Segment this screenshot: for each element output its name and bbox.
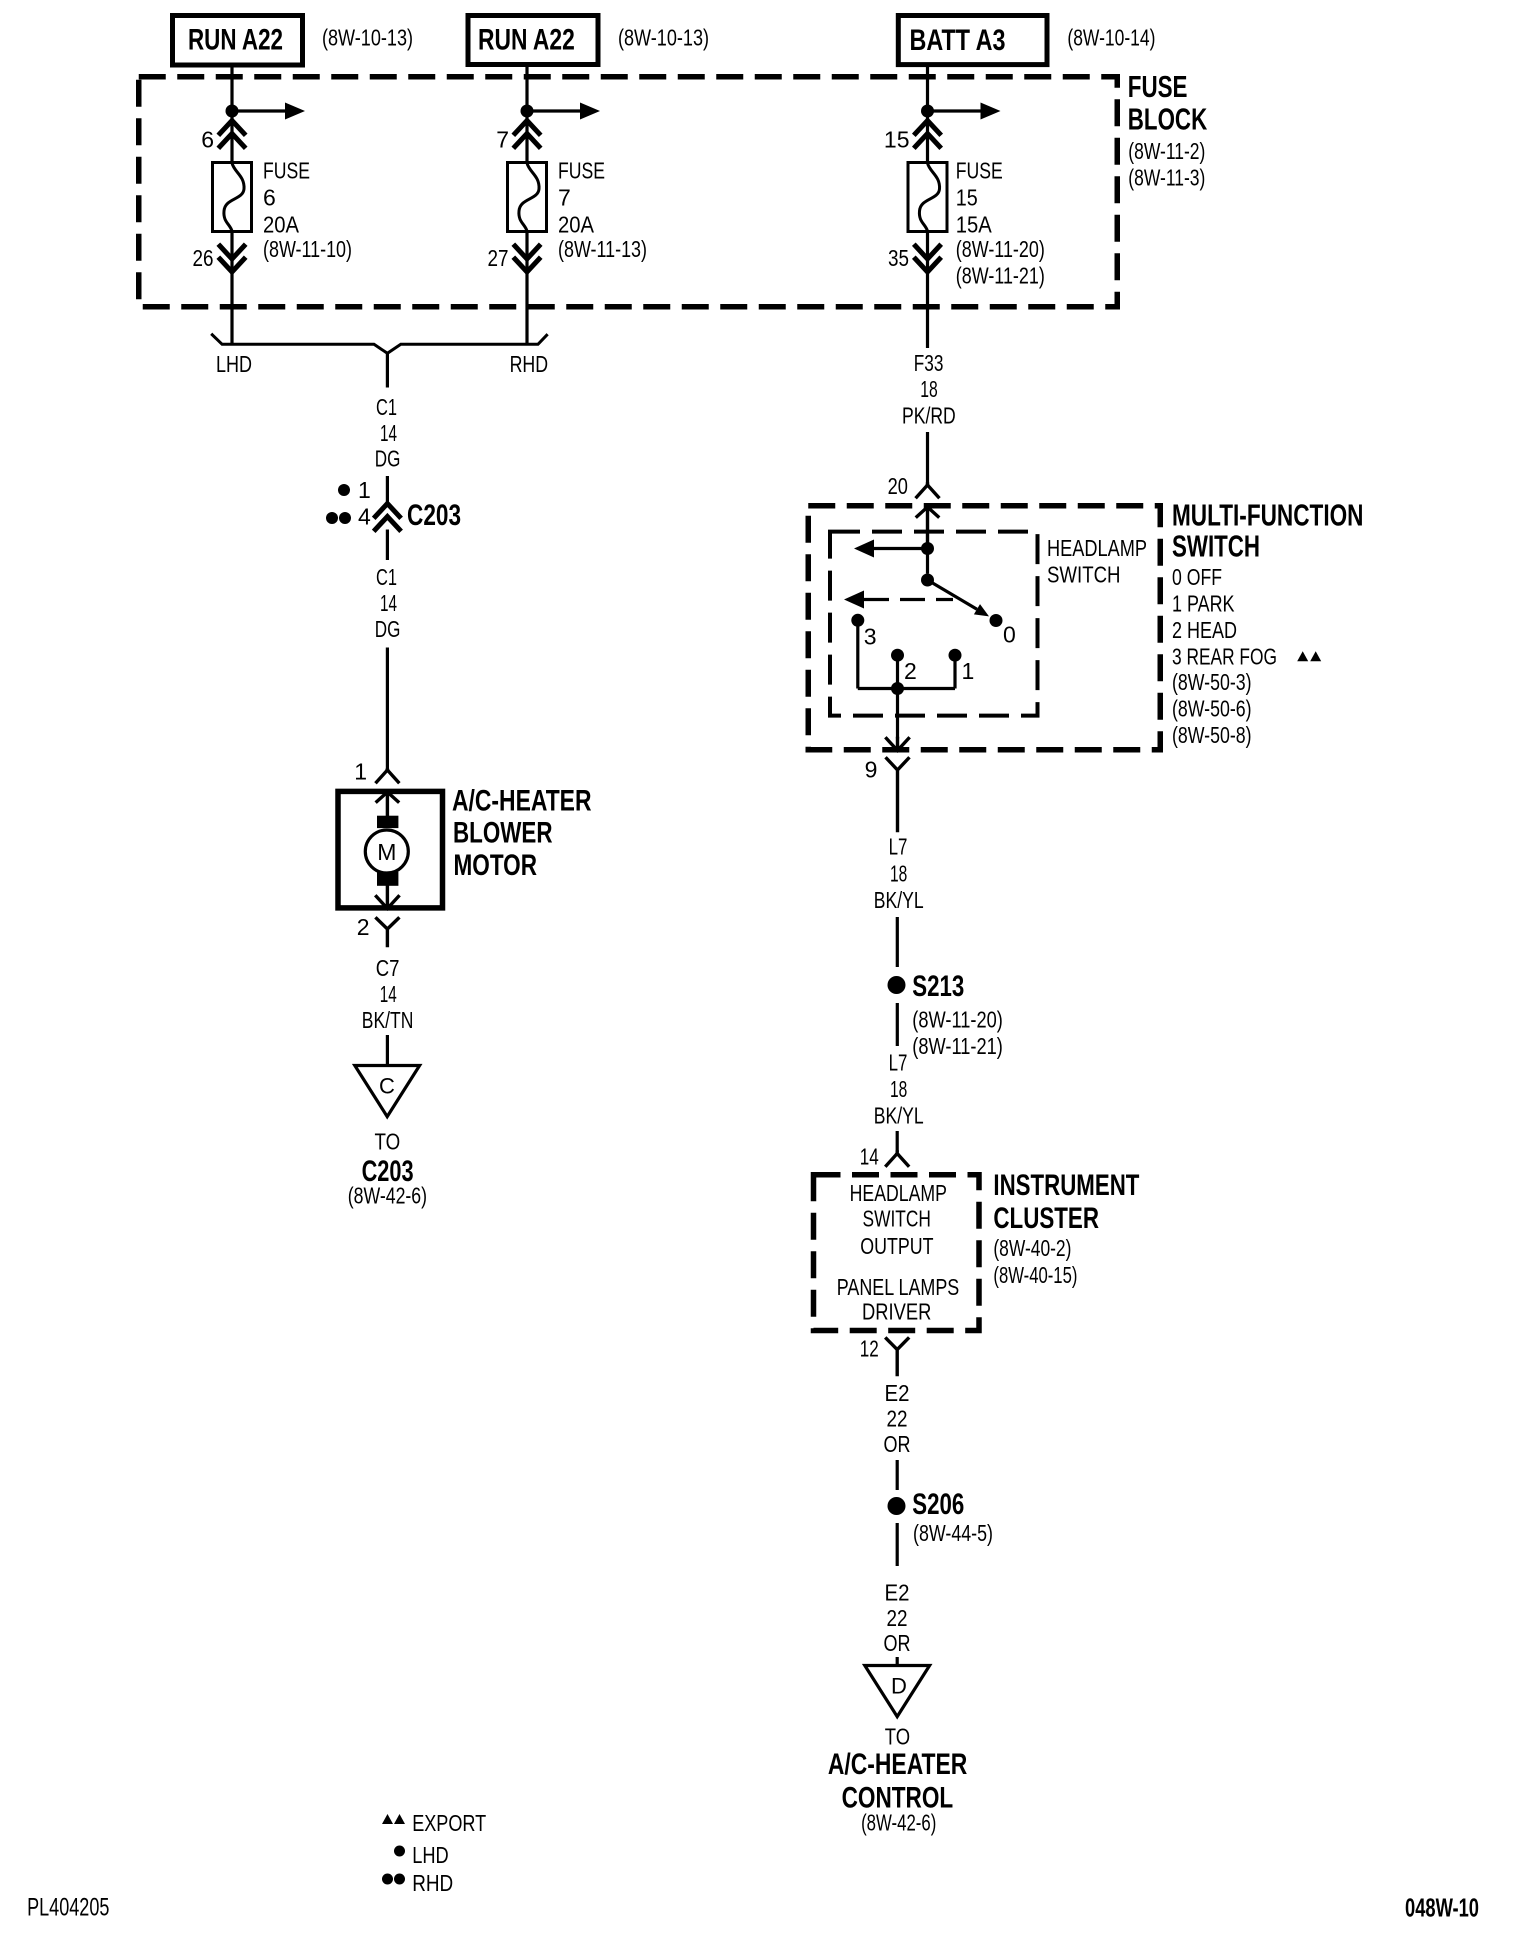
connector chevrons pin 27 <box>515 246 539 272</box>
legend RHD dots <box>382 1874 393 1885</box>
svg-text:3 REAR FOG: 3 REAR FOG <box>1172 643 1277 669</box>
LHD dot marker with pin 1 <box>338 477 371 503</box>
brace joining LHD and RHD wires <box>212 335 546 354</box>
svg-text:(8W-44-5): (8W-44-5) <box>913 1520 993 1546</box>
connector chevrons pin 7 <box>515 121 539 147</box>
svg-text:L7: L7 <box>889 833 908 859</box>
svg-text:(8W-11-13): (8W-11-13) <box>558 236 647 262</box>
svg-text:MULTI-FUNCTION: MULTI-FUNCTION <box>1172 498 1364 533</box>
switch contact 1 wire <box>953 655 956 688</box>
legend LHD dot <box>394 1846 405 1857</box>
svg-text:FUSE: FUSE <box>558 157 605 183</box>
svg-text:14: 14 <box>380 420 397 446</box>
svg-text:PL404205: PL404205 <box>27 1894 109 1922</box>
svg-text:27: 27 <box>488 245 509 271</box>
svg-text:1: 1 <box>962 658 975 684</box>
svg-text:RHD: RHD <box>510 351 548 377</box>
splice S213 references <box>912 1007 1003 1060</box>
connector chevrons pin 15 <box>916 121 940 147</box>
svg-text:(8W-50-6): (8W-50-6) <box>1172 695 1252 721</box>
switch output junction dot <box>891 682 904 695</box>
svg-text:20A: 20A <box>558 211 595 237</box>
svg-text:D: D <box>891 1674 907 1699</box>
cluster references <box>993 1235 1077 1288</box>
svg-text:12: 12 <box>860 1336 879 1362</box>
svg-text:(8W-11-21): (8W-11-21) <box>956 263 1045 289</box>
svg-text:A/C-HEATER: A/C-HEATER <box>452 785 592 818</box>
svg-text:(8W-11-21): (8W-11-21) <box>912 1033 1003 1059</box>
wire into instrument cluster <box>896 1131 899 1152</box>
wire junction to wiper pivot <box>926 549 929 574</box>
svg-text:(8W-10-14): (8W-10-14) <box>1067 25 1155 51</box>
fuse 7 element <box>519 163 539 231</box>
motor pin 2 arrow inside box <box>376 886 398 909</box>
A/C-heater blower motor box <box>338 791 443 908</box>
headlamp switch inner dashed box <box>830 532 1038 716</box>
wire to blower motor <box>386 648 389 771</box>
fuse 7 labels <box>558 157 647 262</box>
multi-function switch title <box>1172 498 1364 564</box>
wire below splice S213 <box>896 1003 899 1046</box>
svg-text:0: 0 <box>1003 622 1016 648</box>
cluster internal label panel lamps driver <box>837 1274 960 1325</box>
svg-text:E2: E2 <box>885 1380 910 1406</box>
svg-text:15: 15 <box>884 127 910 153</box>
headlamp switch inner label <box>1047 535 1147 588</box>
svg-text:(8W-11-10): (8W-11-10) <box>263 236 352 262</box>
switch contact 0 dot <box>990 614 1003 627</box>
svg-text:DRIVER: DRIVER <box>862 1299 931 1325</box>
switch contact 2 dot <box>891 649 904 662</box>
svg-text:6: 6 <box>263 184 276 210</box>
motor brush contact (top) <box>377 816 398 828</box>
wire A feed from source box <box>230 67 233 162</box>
svg-text:C1: C1 <box>376 394 397 420</box>
fuse 6 element <box>224 163 244 231</box>
instrument cluster dashed enclosure <box>814 1175 980 1331</box>
svg-text:SWITCH: SWITCH <box>1047 561 1121 587</box>
svg-text:BATT A3: BATT A3 <box>910 24 1006 57</box>
connector C203 chevrons <box>375 504 399 530</box>
cluster pin 14 connector <box>886 1152 908 1166</box>
svg-text:BLOWER: BLOWER <box>453 817 553 850</box>
wire segment below C203 <box>386 530 389 561</box>
svg-text:PK/RD: PK/RD <box>902 402 956 428</box>
wire above splice S213 <box>896 917 899 967</box>
wire below fuse B <box>525 232 528 346</box>
RHD dots marker with pin 4 <box>326 504 371 530</box>
feed arrow to other circuits C <box>928 103 1001 120</box>
svg-text:2 HEAD: 2 HEAD <box>1172 617 1237 643</box>
instrument cluster title <box>993 1169 1139 1235</box>
svg-text:9: 9 <box>865 756 878 782</box>
wire label E2 22 OR (lower) <box>884 1580 911 1657</box>
cluster pin 12 connector <box>886 1339 908 1375</box>
svg-text:C7: C7 <box>376 955 400 981</box>
svg-text:FUSE: FUSE <box>956 157 1003 183</box>
motor pin 2 connector <box>377 919 399 946</box>
svg-text:(8W-50-8): (8W-50-8) <box>1172 722 1252 748</box>
svg-text:LHD: LHD <box>412 1842 449 1868</box>
svg-text:OR: OR <box>884 1630 911 1656</box>
switch contact 3 dot <box>851 614 864 627</box>
svg-text:S213: S213 <box>912 970 964 1003</box>
svg-text:A/C-HEATER: A/C-HEATER <box>828 1748 968 1781</box>
switch dashed travel arrow <box>844 591 953 609</box>
svg-text:22: 22 <box>887 1605 908 1631</box>
wire above multi-function switch <box>926 432 929 484</box>
svg-text:(8W-10-13): (8W-10-13) <box>618 25 709 51</box>
switch pin 9 connector <box>887 759 909 831</box>
svg-text:14: 14 <box>380 981 397 1007</box>
svg-text:1 PARK: 1 PARK <box>1172 591 1235 617</box>
switch output bus wire <box>858 687 955 690</box>
svg-text:6: 6 <box>201 127 214 153</box>
feed arrow to other circuits A <box>232 103 305 120</box>
fuse 7 body <box>508 163 547 232</box>
wire below fuse A <box>230 232 233 346</box>
switch common junction dot <box>921 542 934 555</box>
svg-text:18: 18 <box>890 1076 907 1102</box>
svg-text:RUN A22: RUN A22 <box>478 24 575 57</box>
svg-text:F33: F33 <box>914 350 944 376</box>
fuse 15 body <box>908 163 947 232</box>
off-page destination label TO C203 <box>348 1129 427 1209</box>
switch pin 20 connector <box>917 484 939 497</box>
svg-text:TO: TO <box>885 1724 910 1750</box>
svg-text:M: M <box>377 839 396 865</box>
wire C feed from source box <box>926 67 929 162</box>
svg-text:7: 7 <box>496 127 509 153</box>
junction dot A <box>226 105 239 118</box>
svg-text:18: 18 <box>920 376 938 402</box>
fuse block dashed enclosure <box>139 77 1118 307</box>
svg-text:2: 2 <box>904 658 917 684</box>
svg-text:MOTOR: MOTOR <box>454 849 538 882</box>
svg-text:BK/YL: BK/YL <box>874 1103 924 1129</box>
splice S213 dot <box>888 976 906 994</box>
splice S206 dot <box>888 1497 906 1515</box>
svg-text:C1: C1 <box>376 564 397 590</box>
switch contact 3 wire <box>856 620 859 688</box>
power source box RUN A22 (middle) <box>468 16 598 65</box>
wire to off-page connector C <box>386 1035 389 1065</box>
fuse 15 labels <box>956 157 1045 288</box>
svg-text:HEADLAMP: HEADLAMP <box>850 1180 947 1206</box>
wire label C7 14 BK/TN <box>362 955 414 1033</box>
svg-text:20A: 20A <box>263 211 300 237</box>
switch position legend <box>1172 564 1277 669</box>
svg-text:14: 14 <box>860 1144 879 1170</box>
wire above splice S206 <box>896 1460 899 1490</box>
svg-text:22: 22 <box>887 1406 908 1432</box>
svg-text:(8W-11-20): (8W-11-20) <box>912 1007 1003 1033</box>
switch contact 1 dot <box>949 649 962 662</box>
legend export triangles <box>382 1814 393 1824</box>
svg-text:048W-10: 048W-10 <box>1405 1893 1479 1923</box>
svg-text:INSTRUMENT: INSTRUMENT <box>993 1169 1139 1202</box>
svg-text:(8W-50-3): (8W-50-3) <box>1172 669 1252 695</box>
wire label L7 18 BK/YL (upper) <box>874 833 924 912</box>
wire label E2 22 OR (upper) <box>884 1380 911 1457</box>
svg-text:RHD: RHD <box>412 1870 453 1896</box>
fuse 6 body <box>213 163 252 232</box>
svg-text:OUTPUT: OUTPUT <box>860 1233 933 1259</box>
svg-text:LHD: LHD <box>216 351 252 377</box>
svg-text:RUN A22: RUN A22 <box>188 24 283 57</box>
cluster internal label headlamp switch output <box>850 1180 947 1259</box>
switch references <box>1172 669 1252 748</box>
switch wiper lever to position 0 <box>928 580 990 616</box>
svg-text:C203: C203 <box>407 499 461 532</box>
switch pin 20 arrow into box <box>917 507 938 542</box>
motor title <box>452 785 592 883</box>
switch contact 2 wire <box>896 655 899 688</box>
svg-text:15: 15 <box>956 184 978 210</box>
wire to off-page connector D <box>896 1657 899 1665</box>
svg-text:BK/YL: BK/YL <box>874 887 924 913</box>
svg-text:BLOCK: BLOCK <box>1128 102 1208 137</box>
svg-text:EXPORT: EXPORT <box>412 1810 486 1836</box>
svg-text:(8W-42-6): (8W-42-6) <box>861 1810 936 1836</box>
switch pin 9 arrow out of box <box>887 739 909 751</box>
motor pin 1 connector <box>377 770 399 782</box>
svg-text:(8W-11-20): (8W-11-20) <box>956 236 1045 262</box>
wire B feed from source box <box>525 67 528 162</box>
off-page connector triangle C <box>355 1066 420 1117</box>
svg-text:18: 18 <box>890 860 907 886</box>
connector chevrons pin 35 <box>916 246 940 272</box>
fuse 15 element <box>919 163 939 231</box>
svg-text:3: 3 <box>864 623 877 649</box>
junction dot C <box>921 105 934 118</box>
svg-text:(8W-11-2): (8W-11-2) <box>1128 138 1205 164</box>
svg-text:2: 2 <box>357 914 370 940</box>
export triangles marker <box>1297 651 1308 661</box>
svg-text:PANEL LAMPS: PANEL LAMPS <box>837 1274 960 1300</box>
motor brush contact (bottom) <box>377 872 398 886</box>
svg-text:SWITCH: SWITCH <box>1172 529 1260 564</box>
svg-text:DG: DG <box>375 446 401 472</box>
multi-function switch dashed enclosure <box>808 506 1160 750</box>
svg-text:1: 1 <box>358 477 371 503</box>
switch output wire down <box>896 689 899 739</box>
power source box RUN A22 (left) <box>173 16 303 66</box>
svg-text:CLUSTER: CLUSTER <box>993 1202 1099 1235</box>
wire label C1 14 DG (lower) <box>375 564 401 642</box>
feed arrow to other circuits B <box>527 103 600 120</box>
svg-text:35: 35 <box>888 245 909 271</box>
wire label L7 18 BK/YL (lower) <box>874 1050 924 1129</box>
svg-text:7: 7 <box>558 184 571 210</box>
junction dot B <box>521 105 534 118</box>
svg-text:E2: E2 <box>885 1580 910 1606</box>
wire label C1 14 DG (upper) <box>375 394 401 472</box>
svg-text:C: C <box>379 1074 395 1099</box>
wiper pivot dot <box>921 574 934 587</box>
svg-text:S206: S206 <box>912 1488 964 1521</box>
wire below brace <box>386 353 389 387</box>
svg-text:L7: L7 <box>889 1050 908 1076</box>
svg-text:SWITCH: SWITCH <box>863 1206 931 1232</box>
svg-text:(8W-40-15): (8W-40-15) <box>993 1262 1077 1288</box>
off-page destination label TO A/C-HEATER CONTROL <box>828 1724 968 1836</box>
svg-text:0 OFF: 0 OFF <box>1172 564 1222 590</box>
switch feed arrow left <box>854 540 928 558</box>
svg-text:BK/TN: BK/TN <box>362 1007 414 1033</box>
svg-text:TO: TO <box>375 1129 401 1155</box>
svg-text:OR: OR <box>884 1431 911 1457</box>
svg-text:(8W-42-6): (8W-42-6) <box>348 1183 427 1209</box>
power source box BATT A3 <box>898 16 1047 65</box>
svg-text:(8W-11-3): (8W-11-3) <box>1128 164 1205 190</box>
svg-text:FUSE: FUSE <box>263 157 310 183</box>
connector chevrons pin 6 <box>220 121 244 147</box>
svg-text:(8W-10-13): (8W-10-13) <box>322 25 413 51</box>
wire below fuse C <box>926 232 929 349</box>
svg-text:DG: DG <box>375 616 401 642</box>
svg-text:26: 26 <box>193 245 214 271</box>
motor pin 1 arrow inside box <box>377 792 398 816</box>
svg-text:4: 4 <box>358 504 371 530</box>
svg-text:20: 20 <box>888 473 908 499</box>
svg-text:1: 1 <box>354 759 367 785</box>
svg-text:FUSE: FUSE <box>1128 69 1188 104</box>
wire below splice S206 <box>896 1523 899 1566</box>
svg-text:(8W-40-2): (8W-40-2) <box>993 1235 1071 1261</box>
wire label F33 18 PK/RD <box>902 350 956 428</box>
fuse block title <box>1128 69 1208 190</box>
off-page connector triangle D <box>865 1666 930 1717</box>
motor symbol circle <box>365 830 408 873</box>
fuse 6 labels <box>263 157 352 262</box>
svg-text:15A: 15A <box>956 211 993 237</box>
connector chevrons pin 26 <box>220 246 244 272</box>
wire segment above C203 <box>386 476 389 502</box>
svg-text:14: 14 <box>380 590 397 616</box>
svg-text:HEADLAMP: HEADLAMP <box>1047 535 1147 561</box>
